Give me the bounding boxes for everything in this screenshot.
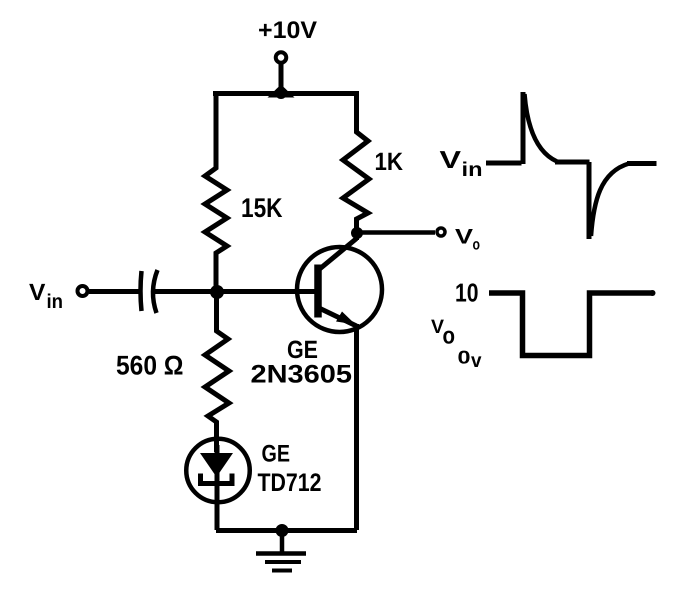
svg-text:15K: 15K (241, 193, 283, 223)
svg-text:o: o (473, 237, 481, 254)
svg-text:GE: GE (262, 441, 291, 468)
svg-text:2N3605: 2N3605 (251, 361, 353, 389)
svg-text:10: 10 (455, 278, 479, 308)
svg-text:560 Ω: 560 Ω (116, 351, 184, 381)
svg-text:1K: 1K (375, 148, 404, 176)
svg-text:V: V (440, 147, 462, 174)
svg-text:in: in (462, 159, 483, 181)
svg-text:TD712: TD712 (258, 469, 322, 497)
svg-text:in: in (47, 291, 64, 313)
svg-text:o: o (443, 323, 456, 350)
svg-text:V: V (455, 226, 473, 249)
svg-text:+10V: +10V (258, 17, 317, 44)
svg-text:v: v (471, 350, 482, 372)
svg-text:0: 0 (458, 347, 471, 368)
svg-text:V: V (29, 279, 46, 305)
